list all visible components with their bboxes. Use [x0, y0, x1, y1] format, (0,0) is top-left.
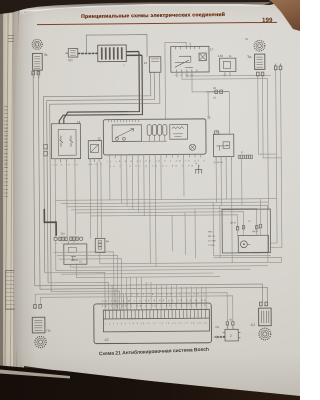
staircase bus to ECU 1	[54, 252, 114, 311]
page number 199	[262, 17, 273, 24]
connector pair X-B4 rear-left	[34, 304, 42, 308]
svg-text:114: 114	[250, 323, 255, 327]
connector pair X-B1	[32, 71, 40, 75]
svg-text:Зд: Зд	[247, 55, 251, 59]
header rule	[37, 21, 277, 25]
lower bus g2	[70, 266, 267, 268]
wire drop ECU b	[115, 289, 117, 310]
connector pair X-B2	[257, 72, 264, 76]
relay box 2	[223, 325, 241, 341]
svg-text:30 87 86 85: 30 87 86 85	[174, 75, 193, 77]
svg-text:м2: м2	[229, 318, 233, 321]
svg-text:В4 С 10 Р2 В 7Н С2 8В 3 РВ П: В4 С 10 Р2 В 7Н С2 8В 3 РВ П	[110, 165, 200, 168]
ignition connector row СМ	[54, 231, 83, 240]
wire to relay 2 (thick dashed)	[215, 336, 225, 338]
wire B2-b to right column	[262, 76, 281, 158]
header text	[33, 12, 273, 21]
svg-text:АВ ВУ: АВ ВУ	[252, 230, 259, 233]
sensor coil B3 rear-right, label 114	[250, 308, 271, 327]
sensor ring B3 rear-right	[259, 328, 271, 340]
fore-edge faint print marks	[4, 105, 8, 197]
left bus connector marks	[44, 144, 48, 156]
svg-text:Г2: Г2	[79, 260, 82, 264]
svg-text:СВ Ц 3В аВ: СВ Ц 3В аВ	[53, 164, 79, 166]
wires ignition	[56, 240, 77, 277]
diode box 149	[218, 54, 236, 72]
wires pump connectors down	[238, 228, 261, 236]
svg-text:2В: 2В	[213, 87, 216, 90]
connector marks м2	[226, 318, 234, 325]
svg-text:ПВ 6: ПВ 6	[208, 232, 213, 234]
wire 8В to cluster	[207, 92, 209, 119]
bottom under-page sliver	[0, 360, 80, 382]
bottom-right bus b2	[214, 257, 282, 263]
relay 17 output pins	[177, 72, 192, 77]
cluster top tick row	[108, 119, 138, 122]
pump connectors	[236, 224, 261, 230]
wire modulator right (thick)	[126, 52, 142, 56]
instrument cluster 15	[103, 116, 211, 155]
svg-text:Ш1: Ш1	[68, 58, 73, 62]
svg-text:12: 12	[97, 137, 101, 141]
svg-text:4а: 4а	[248, 221, 251, 223]
mesh wire h6	[91, 215, 238, 230]
hydraulic modulator 1 (hatched box)	[98, 45, 127, 62]
wire relay17 to connector 8В	[192, 77, 206, 92]
wire 8В to relay 143	[228, 92, 230, 134]
svg-text:СВ: СВ	[215, 325, 219, 329]
mesh wire h1	[55, 199, 276, 201]
relay 143	[213, 130, 234, 157]
bus riser 12a pin3	[49, 72, 161, 291]
svg-text:ПЗ: ПЗ	[46, 329, 50, 333]
caption	[91, 348, 217, 358]
relay 17 coil feed	[165, 42, 187, 119]
dark top band	[0, 0, 300, 20]
svg-text:2В 1 Б 1К 4 НВ 0 ПБ 1 8В С 2 С: 2В 1 Б 1К 4 НВ 0 ПБ 1 8В С 2 СЗ В 1Б	[102, 305, 206, 308]
sensor B1 pin ticks	[33, 76, 40, 78]
bus riser 12a pin1	[43, 72, 152, 273]
mesh wire h5	[75, 212, 243, 230]
mesh wire h3	[67, 205, 268, 264]
svg-text:16: 16	[77, 120, 81, 124]
relay 17	[171, 46, 214, 72]
ignition feed (thick)	[44, 209, 56, 236]
wire drop ECU a	[111, 285, 113, 310]
mesh wire h2	[61, 202, 268, 204]
svg-text:1Б 2В 8 Н 4б СВ ПВ 9 2 НВ 1К С: 1Б 2В 8 Н 4б СВ ПВ 9 2 НВ 1К СЗ 6	[107, 160, 206, 163]
cluster pins	[110, 154, 201, 158]
sensor ring B4 rear-left	[35, 336, 46, 347]
wire connector8 down	[241, 159, 243, 206]
wire pump connector feed	[259, 199, 261, 225]
bottom-right bus b1	[214, 254, 271, 256]
sensor coil B1 front-left, label Зк	[33, 53, 48, 70]
box16 pins	[55, 159, 75, 163]
ECU wire drops	[127, 277, 207, 310]
svg-text:1Б 2В 8 В: 1Б 2В 8 В	[213, 162, 223, 164]
svg-text:8: 8	[241, 150, 243, 154]
table surface top-right (beige)	[258, 0, 300, 34]
ignition switch Г2	[64, 244, 87, 264]
wire thick drop to cluster feed	[63, 52, 139, 124]
relay box 12	[88, 137, 102, 159]
svg-text:15: 15	[207, 116, 211, 120]
wire relay17 to assembly drop	[182, 77, 268, 210]
mesh wire h4	[71, 208, 257, 229]
wires box16 down to ignition row	[55, 162, 75, 237]
svg-text:143: 143	[214, 130, 219, 134]
wire fuse down	[99, 253, 101, 264]
149 pins	[225, 72, 230, 77]
wire drop ECU d	[126, 297, 128, 310]
rear-left sensor wires	[35, 293, 227, 324]
bus riser 12a pin2	[46, 72, 155, 283]
svg-text:12: 12	[144, 61, 148, 65]
box12 pins	[90, 159, 99, 162]
wire right column a	[269, 70, 277, 243]
svg-text:1 2 3 4 5 6 7 8 9 10 11 12 13: 1 2 3 4 5 6 7 8 9 10 11 12 13 14 15 16 1…	[105, 323, 208, 326]
svg-text:ДВ 30: ДВ 30	[230, 222, 237, 224]
connector pair X-B3 rear-right	[260, 302, 268, 306]
3-pin connector a	[195, 162, 202, 174]
switch box 16 (brake fluid level)	[51, 120, 81, 159]
svg-text:СВ СВ2 8 В 1 А 4Б В СВ СВ СВ Н: СВ СВ2 8 В 1 А 4Б В СВ СВ СВ НВ 8 ПВ	[102, 299, 206, 303]
lower bus g4	[61, 273, 214, 274]
wire thick drop 2	[59, 55, 143, 123]
mesh drop j1	[212, 203, 214, 256]
wire right column b	[269, 70, 282, 248]
svg-text:17: 17	[210, 47, 214, 51]
sensor coil B4 rear-left, label ПЗ	[32, 317, 50, 333]
pump box	[238, 235, 268, 252]
svg-text:2в: 2в	[229, 55, 232, 58]
mesh drop j2	[219, 206, 221, 258]
wires cluster to mesh	[110, 158, 185, 267]
svg-text:Зк: Зк	[44, 53, 48, 57]
connector pair Зв	[274, 63, 281, 69]
wire Ш1 to modulator (thick)	[78, 52, 98, 54]
ECU А2	[94, 303, 212, 344]
junction box 12a	[144, 57, 161, 73]
svg-text:ВР С Н: ВР С Н	[208, 236, 215, 238]
assembly pin label block	[208, 221, 259, 247]
bottom dark wedge below page	[0, 360, 300, 400]
pump motor	[240, 241, 250, 248]
svg-text:Зв: Зв	[245, 38, 248, 41]
svg-text:ВВ СВ П: ВВ СВ П	[89, 164, 103, 166]
wire B1-a down left side to ECU	[33, 73, 263, 304]
wires relay143 down	[216, 160, 232, 263]
wire B2-a to right column	[258, 76, 277, 154]
svg-text:149: 149	[218, 54, 223, 58]
lower bus g1	[100, 262, 282, 263]
left book fore-edge strips	[0, 0, 24, 400]
connector row 8	[238, 150, 252, 158]
bottom-left spine dark	[0, 374, 14, 400]
wires box12 to fuse	[90, 162, 101, 239]
connector Ш1	[65, 49, 78, 63]
svg-text:А2: А2	[105, 338, 109, 342]
sensor ring B1 front-left (toothed rotor)	[32, 39, 42, 49]
left buses to ECU	[45, 272, 105, 310]
page top edge highlight	[18, 0, 290, 16]
staircase bus to ECU 2	[57, 255, 118, 310]
svg-text:СУ ВН: СУ ВН	[208, 245, 215, 247]
relay 143 pins	[216, 157, 231, 161]
svg-text:2: 2	[230, 334, 232, 338]
svg-text:1Б: 1Б	[213, 96, 216, 99]
wire relay17 upper link	[187, 75, 271, 77]
svg-text:СМ: СМ	[61, 231, 65, 235]
lower bus g5	[77, 276, 221, 277]
lower bus g3	[56, 269, 251, 271]
sensor coil B2 front-right, label Зд	[247, 54, 265, 69]
hydraulic assembly outer box	[222, 209, 271, 253]
inline connector 8В	[206, 87, 229, 100]
fuse 4Б	[95, 238, 109, 252]
wire top loop Ш1-modulator-12a	[86, 35, 147, 58]
svg-text:4Б: 4Б	[106, 239, 109, 243]
mesh staircase drops	[172, 209, 195, 258]
gutter shadow on left of page	[13, 6, 37, 398]
svg-text:1: 1	[123, 64, 125, 67]
sensor ring B2 front-right	[254, 40, 265, 51]
svg-text:1К СВВ: 1К СВВ	[208, 240, 216, 242]
staircase bus to ECU 3	[59, 259, 122, 311]
wire B1-b down left side to ECU	[38, 73, 267, 304]
wire drop ECU c	[122, 294, 124, 310]
